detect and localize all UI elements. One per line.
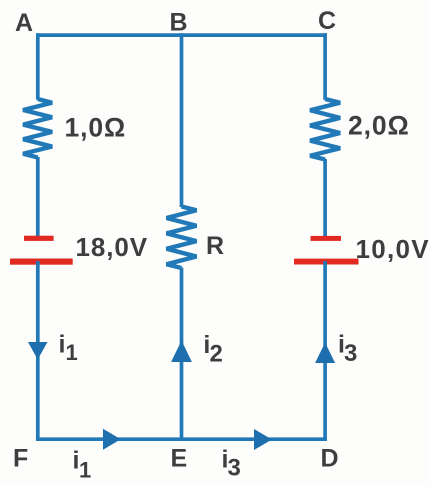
svg-text:10,0V: 10,0V xyxy=(356,234,430,264)
wire left branch A to resistor xyxy=(36,33,40,99)
current label i1 bottom wire xyxy=(73,447,92,483)
wire bottom F-E-D xyxy=(36,437,327,441)
wire right branch C to resistor xyxy=(323,33,327,99)
wire top A-B-C xyxy=(36,33,327,37)
svg-text:2: 2 xyxy=(210,341,223,368)
current label i2 middle branch xyxy=(203,331,222,368)
arrowhead current i1 down xyxy=(28,342,48,360)
resistor R2 2,0 ohm xyxy=(310,99,340,160)
svg-text:B: B xyxy=(170,9,188,37)
svg-text:R: R xyxy=(206,232,224,260)
svg-text:F: F xyxy=(13,445,28,473)
node D label xyxy=(321,445,339,473)
svg-text:2,0Ω: 2,0Ω xyxy=(348,111,410,141)
battery B1 18,0V top plate xyxy=(24,236,54,241)
value label 10,0V xyxy=(356,234,430,264)
current label i3 bottom wire xyxy=(222,446,241,482)
wire right below battery to D xyxy=(323,261,327,441)
arrowhead current i1 on bottom wire F-E xyxy=(103,429,121,450)
arrowhead current i3 on bottom wire E-D xyxy=(254,429,272,450)
resistor R1 1,0 ohm xyxy=(23,99,52,158)
arrowhead current i2 up xyxy=(171,341,192,363)
svg-text:1: 1 xyxy=(79,458,91,483)
battery B1 18,0V bottom plate xyxy=(10,259,73,265)
current label i1 left branch xyxy=(59,331,78,366)
wire left below battery to F xyxy=(36,261,40,441)
node C label xyxy=(318,7,336,35)
svg-text:1: 1 xyxy=(66,340,78,365)
value label 18,0V xyxy=(76,232,148,262)
node E label xyxy=(171,445,188,473)
value label R xyxy=(206,232,224,260)
battery B2 10,0V bottom plate xyxy=(294,259,359,265)
current label i3 right branch xyxy=(338,331,357,368)
node F label xyxy=(13,445,28,473)
value label 1,0 ohm xyxy=(65,113,127,143)
svg-text:1,0Ω: 1,0Ω xyxy=(65,113,127,143)
svg-text:18,0V: 18,0V xyxy=(76,232,148,262)
node A label xyxy=(15,9,33,37)
node B label xyxy=(170,9,188,37)
svg-text:3: 3 xyxy=(228,455,241,482)
resistor R xyxy=(167,207,197,269)
svg-text:i: i xyxy=(59,331,66,359)
battery B2 10,0V top plate xyxy=(311,236,342,241)
svg-text:C: C xyxy=(318,7,336,35)
svg-text:D: D xyxy=(321,445,339,473)
wire middle below resistor R to E xyxy=(180,268,184,442)
svg-text:E: E xyxy=(171,445,188,473)
wire left between resistor and battery xyxy=(36,157,40,238)
arrowhead current i3 up xyxy=(315,343,335,364)
svg-text:3: 3 xyxy=(344,340,357,367)
svg-text:A: A xyxy=(15,9,33,37)
wire right between resistor and battery xyxy=(323,159,327,238)
wire middle branch B to resistor R xyxy=(180,33,184,207)
value label 2,0 ohm xyxy=(348,111,410,141)
